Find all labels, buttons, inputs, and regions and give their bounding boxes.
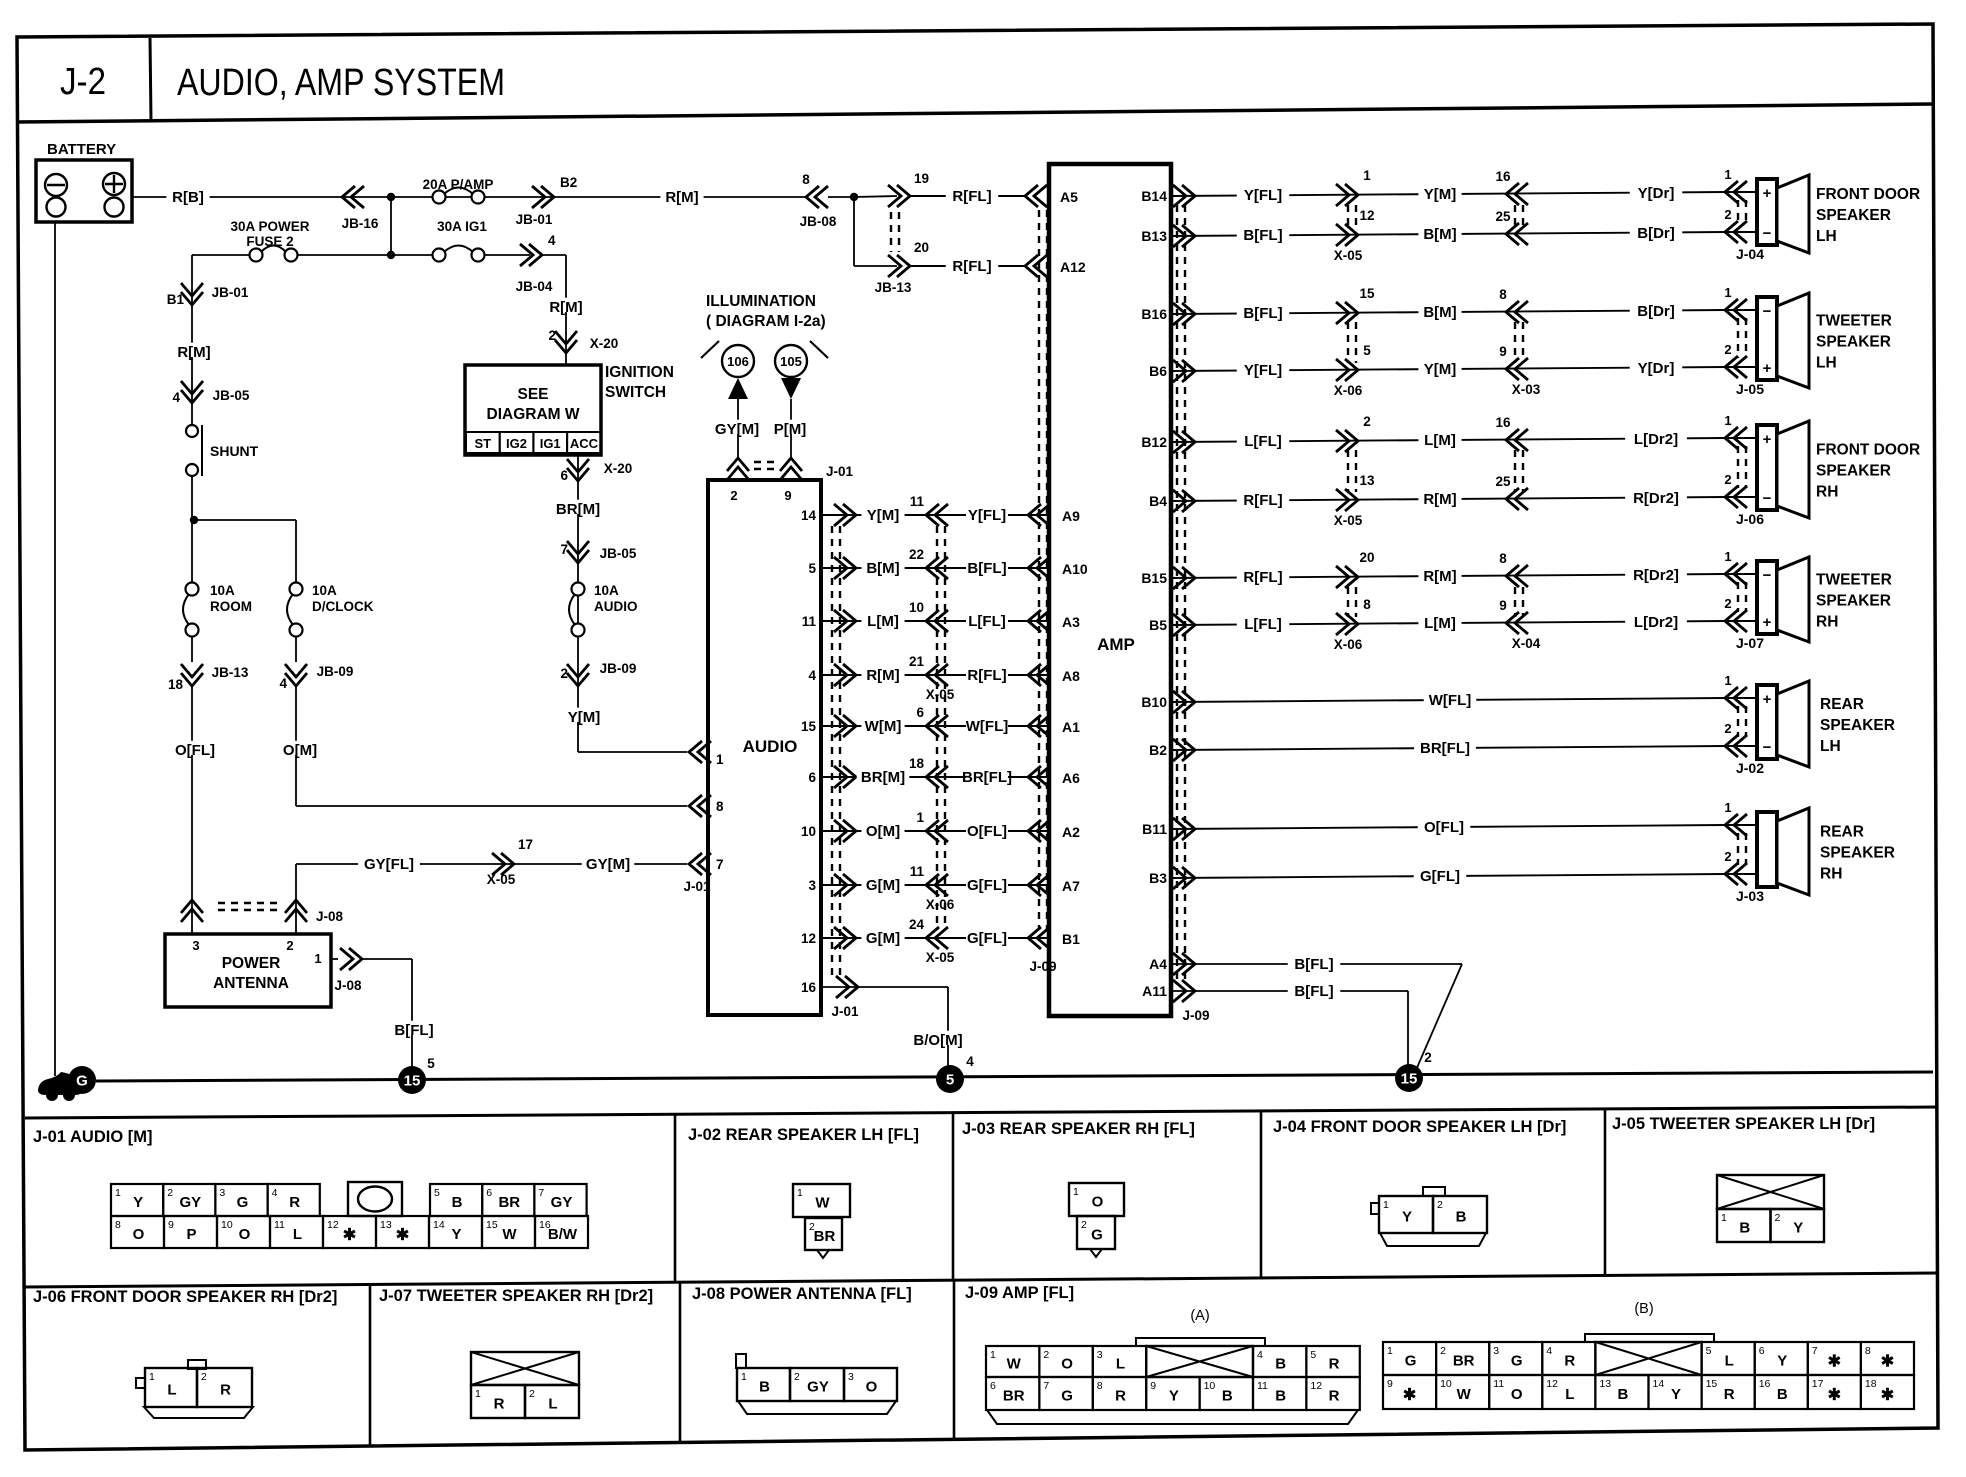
- svg-text:Y[M]: Y[M]: [1424, 186, 1457, 203]
- svg-text:B[FL]: B[FL]: [394, 1022, 433, 1039]
- connector 10: [926, 610, 939, 632]
- svg-text:O: O: [1092, 1194, 1104, 1211]
- svg-text:O[FL]: O[FL]: [967, 823, 1007, 840]
- svg-text:BR: BR: [1453, 1353, 1475, 1370]
- svg-text:B: B: [452, 1194, 463, 1211]
- wire: [362, 958, 412, 960]
- svg-text:JB-09: JB-09: [317, 664, 354, 679]
- connector at AMP B12: [1182, 431, 1195, 453]
- connector at AMP B2: [1182, 739, 1195, 761]
- svg-text:3: 3: [808, 878, 816, 893]
- svg-text:BR[FL]: BR[FL]: [1420, 740, 1470, 757]
- connector 5: [1345, 359, 1358, 381]
- connector 17 X-05: [501, 853, 514, 875]
- svg-text:J-08 POWER ANTENNA [FL]: J-08 POWER ANTENNA [FL]: [692, 1285, 912, 1303]
- connector 9: [1506, 358, 1519, 380]
- connector 8: [1506, 301, 1519, 323]
- svg-text:2: 2: [1724, 472, 1731, 487]
- svg-text:JB-16: JB-16: [342, 216, 379, 231]
- connector at AMP A8: [1028, 664, 1041, 686]
- bracket: [701, 341, 719, 358]
- wire R[FL] to A12: [910, 265, 1025, 267]
- svg-text:BR[FL]: BR[FL]: [962, 769, 1012, 786]
- label R[M]: [544, 298, 587, 312]
- svg-text:J-02 REAR SPEAKER LH [FL]: J-02 REAR SPEAKER LH [FL]: [688, 1126, 919, 1144]
- svg-text:4: 4: [279, 676, 287, 691]
- svg-text:R[FL]: R[FL]: [952, 258, 991, 275]
- svg-text:O: O: [133, 1226, 145, 1243]
- svg-text:ST: ST: [474, 436, 491, 451]
- connector 2 JB-09: [567, 673, 589, 686]
- svg-text:O[FL]: O[FL]: [1424, 819, 1464, 836]
- svg-text:SPEAKER: SPEAKER: [1816, 593, 1891, 610]
- wire AMP B16 to speaker: [1171, 310, 1725, 314]
- label R[Dr2]: [1625, 566, 1687, 580]
- svg-text:L[Dr2]: L[Dr2]: [1634, 431, 1678, 448]
- twisted pair dashes: [218, 902, 282, 904]
- wire AMP B15 to speaker: [1171, 574, 1725, 578]
- svg-text:1: 1: [1724, 549, 1731, 564]
- svg-text:J-09: J-09: [1029, 959, 1056, 974]
- svg-text:18: 18: [1865, 1378, 1877, 1390]
- svg-text:6: 6: [808, 770, 816, 785]
- wire O[M] down: [295, 686, 297, 806]
- wire junction down: [390, 197, 392, 255]
- svg-text:2: 2: [286, 938, 293, 953]
- battery lower posts: [47, 198, 66, 217]
- svg-text:W[M]: W[M]: [865, 718, 902, 735]
- connector J-01 pin2: [727, 458, 749, 471]
- svg-text:A9: A9: [1062, 508, 1080, 524]
- connector at AMP A2: [1028, 820, 1041, 842]
- svg-text:−: −: [1763, 490, 1772, 507]
- svg-text:15: 15: [801, 719, 817, 734]
- svg-text:17: 17: [518, 837, 533, 852]
- svg-text:4: 4: [1257, 1349, 1263, 1361]
- svg-text:B16: B16: [1141, 306, 1167, 322]
- svg-text:19: 19: [914, 171, 929, 186]
- twisted pair dashes: [1347, 205, 1349, 228]
- svg-text:X-20: X-20: [590, 336, 619, 351]
- connector at AUDIO pin 14: [843, 504, 856, 526]
- power antenna box: [165, 934, 331, 1007]
- svg-text:3: 3: [848, 1371, 854, 1383]
- svg-text:2: 2: [1724, 207, 1731, 222]
- svg-text:X-05: X-05: [1334, 248, 1363, 263]
- wire AUDIO pin 12 to AMP B1: [821, 937, 1049, 939]
- ground bus: [96, 1072, 1933, 1081]
- svg-text:5: 5: [1363, 343, 1371, 358]
- wire diagonal to ground 15: [1416, 964, 1462, 1070]
- label B[M]: [861, 559, 904, 573]
- svg-text:L: L: [1116, 1356, 1125, 1373]
- J-05 connector: [1717, 1175, 1824, 1209]
- shunt: [186, 425, 198, 437]
- svg-text:15: 15: [486, 1219, 498, 1231]
- svg-text:L: L: [548, 1396, 557, 1413]
- title band divider: [150, 38, 151, 121]
- connector at AMP B4: [1182, 490, 1195, 512]
- svg-text:5: 5: [946, 1072, 954, 1089]
- svg-text:18: 18: [168, 677, 184, 692]
- label BR[FL]: [1414, 739, 1476, 753]
- svg-text:IG1: IG1: [540, 436, 561, 451]
- svg-text:B[FL]: B[FL]: [967, 560, 1006, 577]
- label G[FL]: [966, 876, 1008, 890]
- svg-text:G: G: [1061, 1388, 1073, 1405]
- front door speaker RH: [1757, 425, 1777, 510]
- wire GY[M]: [737, 399, 739, 458]
- svg-text:B1: B1: [1062, 931, 1080, 947]
- svg-text:2: 2: [548, 328, 556, 343]
- svg-text:16: 16: [801, 980, 817, 995]
- label Y[M]: [562, 708, 605, 722]
- svg-text:3: 3: [1097, 1349, 1103, 1361]
- connector at AMP A3: [1028, 610, 1041, 632]
- svg-text:16: 16: [1759, 1378, 1771, 1390]
- wire to fuse2: [298, 254, 391, 256]
- J-09 connector B: [1585, 1334, 1714, 1342]
- ground G: [68, 1066, 96, 1094]
- connector at AUDIO pin 15: [843, 715, 856, 737]
- label B[FL]: [388, 1021, 441, 1035]
- connector 16: [1506, 183, 1519, 205]
- label G[FL]: [1414, 867, 1467, 881]
- svg-text:Y[M]: Y[M]: [568, 709, 601, 726]
- label Y[FL]: [966, 506, 1008, 520]
- svg-text:A2: A2: [1062, 824, 1080, 840]
- connector 8: [1345, 613, 1358, 635]
- label L[M]: [1418, 431, 1461, 445]
- connector table grid: [25, 1107, 1938, 1118]
- svg-text:R: R: [1724, 1386, 1735, 1403]
- svg-text:REAR: REAR: [1820, 696, 1864, 713]
- wire AMP B12 to speaker: [1171, 438, 1725, 442]
- connector 25: [1506, 488, 1519, 510]
- svg-text:4: 4: [808, 668, 816, 683]
- svg-text:Y: Y: [451, 1226, 461, 1243]
- svg-text:B3: B3: [1149, 870, 1167, 886]
- svg-text:JB-05: JB-05: [600, 546, 637, 561]
- svg-text:B: B: [1739, 1220, 1750, 1237]
- svg-text:ILLUMINATION: ILLUMINATION: [706, 293, 816, 310]
- label G[M]: [861, 929, 904, 943]
- svg-text:B2: B2: [560, 175, 577, 190]
- svg-text:O[FL]: O[FL]: [175, 742, 215, 759]
- label R[M]: [1418, 490, 1461, 504]
- svg-text:A12: A12: [1060, 259, 1086, 275]
- svg-text:L: L: [1565, 1386, 1574, 1403]
- AMP box: [1049, 164, 1171, 1016]
- label L[M]: [1418, 614, 1461, 628]
- svg-text:9: 9: [784, 488, 791, 503]
- svg-text:+: +: [1763, 185, 1772, 202]
- svg-text:GY[FL]: GY[FL]: [364, 856, 414, 873]
- svg-text:B6: B6: [1149, 363, 1167, 379]
- svg-text:G[M]: G[M]: [866, 877, 900, 894]
- node 106: [722, 345, 754, 377]
- twisted pair dashes: [831, 526, 833, 978]
- svg-text:ACC: ACC: [570, 436, 599, 451]
- svg-text:L: L: [293, 1226, 302, 1243]
- wire: [191, 636, 193, 662]
- svg-text:A4: A4: [1149, 956, 1167, 972]
- node 105: [775, 345, 807, 377]
- svg-text:6: 6: [990, 1380, 996, 1392]
- svg-text:Y[M]: Y[M]: [1424, 361, 1457, 378]
- svg-text:1: 1: [1363, 168, 1371, 183]
- arrow up: [728, 378, 748, 399]
- wire to chevron 19: [854, 196, 897, 197]
- battery box: [36, 160, 132, 222]
- twisted pair dashes: [890, 212, 892, 252]
- connector at AMP B6: [1182, 360, 1195, 382]
- svg-text:6: 6: [486, 1187, 492, 1199]
- svg-text:O: O: [866, 1379, 878, 1396]
- connector 4 JB-05: [181, 390, 203, 403]
- junction: [387, 251, 395, 259]
- svg-text:R[FL]: R[FL]: [952, 188, 991, 205]
- connector at AUDIO pin 6: [843, 766, 856, 788]
- svg-text:10: 10: [1204, 1380, 1216, 1392]
- svg-text:O: O: [1511, 1386, 1523, 1403]
- svg-text:G: G: [1511, 1353, 1523, 1370]
- label B[Dr]: [1630, 224, 1683, 238]
- svg-text:8: 8: [802, 172, 810, 187]
- svg-text:L[M]: L[M]: [1424, 432, 1456, 449]
- svg-text:RH: RH: [1816, 614, 1838, 631]
- label B[FL]: [1237, 226, 1290, 240]
- svg-text:3: 3: [219, 1187, 225, 1199]
- svg-text:11: 11: [910, 494, 925, 509]
- svg-text:B1: B1: [167, 292, 185, 307]
- battery minus terminal: [45, 174, 67, 196]
- svg-text:X-03: X-03: [1512, 382, 1541, 397]
- svg-text:3: 3: [1493, 1345, 1499, 1357]
- connector at AMP B1: [1028, 927, 1041, 949]
- connector 20: [1345, 566, 1358, 588]
- svg-text:15: 15: [1706, 1378, 1718, 1390]
- svg-text:B: B: [1222, 1388, 1233, 1405]
- fuse 10A D/CLOCK: [290, 583, 303, 596]
- wire down to ignition switch: [565, 255, 567, 365]
- svg-text:SWITCH: SWITCH: [605, 384, 666, 401]
- svg-text:11: 11: [802, 614, 817, 629]
- connector 6: [926, 715, 939, 737]
- svg-text:X-04: X-04: [1512, 636, 1541, 651]
- svg-text:Y[Dr]: Y[Dr]: [1638, 185, 1675, 202]
- ignition switch box: [465, 365, 601, 455]
- connector 4 JB-04: [529, 244, 542, 266]
- svg-text:1: 1: [1721, 1212, 1727, 1224]
- connector 4 JB-09: [285, 673, 307, 686]
- svg-text:1: 1: [149, 1371, 155, 1383]
- svg-text:W: W: [502, 1226, 517, 1243]
- svg-text:−: −: [1763, 739, 1772, 756]
- label GY[FL]: [358, 855, 420, 869]
- connector 21: [926, 664, 939, 686]
- ground 15: [398, 1066, 426, 1094]
- svg-text:FUSE 2: FUSE 2: [246, 234, 293, 249]
- svg-text:21: 21: [909, 654, 925, 669]
- label B[Dr]: [1630, 302, 1683, 316]
- svg-text:A3: A3: [1062, 614, 1080, 630]
- svg-text:R: R: [289, 1194, 300, 1211]
- svg-text:D/CLOCK: D/CLOCK: [312, 599, 374, 614]
- svg-text:2: 2: [794, 1371, 800, 1383]
- svg-text:13: 13: [1599, 1378, 1611, 1390]
- svg-text:1: 1: [916, 810, 924, 825]
- svg-text:GY[M]: GY[M]: [586, 856, 630, 873]
- connector 24: [926, 927, 939, 949]
- connector 15: [1345, 302, 1358, 324]
- connector at AUDIO pin 7: [689, 853, 702, 875]
- connector at AMP B5: [1182, 614, 1195, 636]
- svg-text:7: 7: [1812, 1345, 1818, 1357]
- svg-text:7: 7: [560, 542, 568, 557]
- label O[M]: [278, 741, 321, 755]
- svg-text:R[M]: R[M]: [549, 299, 582, 316]
- connector 11: [926, 504, 939, 526]
- svg-text:4: 4: [172, 390, 180, 405]
- svg-text:Y[FL]: Y[FL]: [1244, 187, 1282, 204]
- wire O[FL] down: [191, 686, 193, 896]
- svg-text:W: W: [1457, 1386, 1472, 1403]
- svg-text:10: 10: [221, 1219, 233, 1231]
- svg-text:W: W: [815, 1195, 830, 1212]
- connector 8: [1506, 565, 1519, 587]
- svg-text:L[M]: L[M]: [1424, 615, 1456, 632]
- svg-text:+: +: [1763, 691, 1772, 708]
- svg-text:1: 1: [115, 1187, 121, 1199]
- label P[M]: [768, 420, 811, 434]
- wire battery negative down: [54, 222, 56, 1076]
- svg-text:(A): (A): [1190, 1308, 1209, 1324]
- svg-text:15: 15: [1401, 1071, 1418, 1088]
- wire to chevron 20: [854, 265, 897, 267]
- front door speaker LH: [1757, 179, 1777, 245]
- svg-text:4: 4: [548, 233, 556, 248]
- svg-text:B[M]: B[M]: [1423, 304, 1456, 321]
- svg-text:11: 11: [274, 1219, 285, 1231]
- connector at AUDIO pin 10: [843, 820, 856, 842]
- wire AMP B14 to speaker: [1171, 192, 1725, 196]
- label Y[Dr]: [1630, 184, 1683, 198]
- wire GY[FL] from power antenna to AUDIO pin 7: [296, 863, 687, 865]
- label B/O[M]: [907, 1031, 969, 1045]
- svg-text:J-01: J-01: [683, 879, 711, 894]
- svg-text:3: 3: [192, 938, 199, 953]
- svg-text:J-03: J-03: [1736, 888, 1764, 904]
- svg-text:5: 5: [808, 561, 816, 576]
- svg-text:L[FL]: L[FL]: [968, 613, 1005, 630]
- svg-text:12: 12: [327, 1219, 339, 1231]
- connector at AMP B11: [1182, 818, 1195, 840]
- label W[FL]: [966, 717, 1008, 731]
- connector 18 JB-13: [181, 673, 203, 686]
- svg-text:1: 1: [716, 752, 724, 767]
- svg-text:14: 14: [433, 1219, 445, 1231]
- wire P[M]: [790, 399, 792, 458]
- svg-text:J-07: J-07: [1736, 635, 1764, 651]
- svg-text:G: G: [1405, 1353, 1417, 1370]
- connector at AMP A5: [1025, 185, 1038, 207]
- label G[M]: [861, 876, 904, 890]
- svg-text:9: 9: [168, 1219, 174, 1231]
- svg-text:W[FL]: W[FL]: [966, 718, 1008, 735]
- svg-text:−: −: [1763, 225, 1772, 242]
- svg-text:R[B]: R[B]: [172, 189, 204, 206]
- wire AMP B4 to speaker: [1171, 497, 1725, 501]
- tweeter speaker RH: [1757, 561, 1777, 634]
- svg-text:8: 8: [1499, 287, 1507, 302]
- wire AUDIO pin 3 to AMP A7: [821, 884, 1049, 886]
- connector at AUDIO pin 8: [689, 795, 702, 817]
- svg-text:1: 1: [1724, 413, 1731, 428]
- svg-text:17: 17: [1812, 1378, 1824, 1390]
- svg-text:13: 13: [1359, 473, 1375, 488]
- label W[FL]: [1424, 691, 1477, 705]
- svg-text:1: 1: [1073, 1186, 1079, 1198]
- connector at AMP A6: [1028, 766, 1041, 788]
- battery plus terminal: [103, 173, 125, 195]
- svg-text:B: B: [1456, 1209, 1467, 1226]
- connector 9: [1506, 612, 1519, 634]
- svg-text:7: 7: [716, 857, 724, 872]
- svg-text:JB-01: JB-01: [212, 285, 249, 300]
- rear speaker RH: [1757, 812, 1777, 887]
- svg-text:14: 14: [801, 508, 817, 523]
- svg-text:TWEETER: TWEETER: [1816, 572, 1892, 589]
- svg-text:G: G: [237, 1194, 249, 1211]
- svg-text:16: 16: [1495, 169, 1511, 184]
- label R[FL]: [966, 666, 1008, 680]
- svg-text:Y: Y: [1671, 1386, 1681, 1403]
- AUDIO unit box: [708, 480, 821, 1015]
- svg-text:J-03 REAR SPEAKER RH [FL]: J-03 REAR SPEAKER RH [FL]: [962, 1120, 1195, 1138]
- svg-text:8: 8: [115, 1219, 121, 1231]
- connector 2: [1345, 430, 1358, 452]
- svg-text:2: 2: [560, 666, 568, 681]
- svg-text:JB-05: JB-05: [213, 388, 250, 403]
- J-01 key cell: [348, 1182, 402, 1216]
- svg-text:J-05 TWEETER SPEAKER LH [Dr]: J-05 TWEETER SPEAKER LH [Dr]: [1612, 1115, 1875, 1133]
- svg-text:8: 8: [1499, 551, 1507, 566]
- svg-text:R: R: [1564, 1353, 1575, 1370]
- svg-text:SHUNT: SHUNT: [210, 443, 259, 459]
- svg-text:J-09 AMP [FL]: J-09 AMP [FL]: [965, 1284, 1074, 1302]
- svg-text:B5: B5: [1149, 617, 1167, 633]
- svg-text:20: 20: [914, 240, 929, 255]
- svg-text:20: 20: [1359, 550, 1374, 565]
- connector at AMP B10: [1182, 691, 1195, 713]
- connector 16: [1506, 429, 1519, 451]
- label BR[M]: [857, 768, 910, 782]
- svg-text:8: 8: [1363, 597, 1371, 612]
- svg-text:10: 10: [909, 600, 924, 615]
- svg-text:JB-08: JB-08: [800, 214, 837, 229]
- connector at AMP A12: [1025, 255, 1038, 277]
- svg-text:2: 2: [167, 1187, 173, 1199]
- connector 16 J-01: [845, 976, 858, 998]
- svg-text:G[FL]: G[FL]: [967, 877, 1007, 894]
- svg-text:G: G: [1091, 1227, 1103, 1244]
- rear speaker LH: [1757, 685, 1777, 759]
- label Y[FL]: [1237, 361, 1290, 375]
- connector at AMP A10: [1028, 557, 1041, 579]
- svg-text:11: 11: [1493, 1378, 1504, 1390]
- svg-text:2: 2: [1440, 1345, 1446, 1357]
